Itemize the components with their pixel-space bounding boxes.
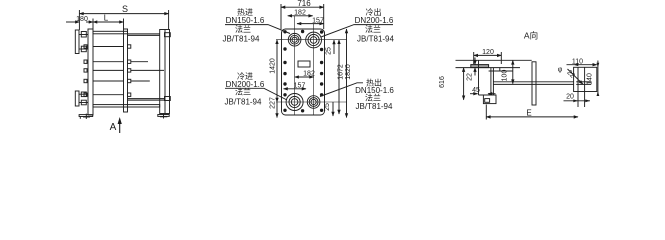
lower long tie rod xyxy=(128,97,171,101)
label hot-out bottom-right xyxy=(355,78,394,112)
svg-text:157: 157 xyxy=(294,82,306,89)
nozzle top-left DN150 xyxy=(288,33,301,46)
leader cold-in xyxy=(225,88,287,100)
support column seen from below xyxy=(532,62,536,105)
dimension 20 xyxy=(564,94,591,103)
svg-text:22: 22 xyxy=(467,73,474,81)
svg-text:法兰: 法兰 xyxy=(365,93,381,103)
dimension 157 bottom xyxy=(284,82,307,89)
label cold-out top-right xyxy=(355,7,395,44)
svg-text:110: 110 xyxy=(572,59,583,66)
dimension 25 top right xyxy=(326,40,335,55)
base top line xyxy=(456,59,532,61)
svg-text:JB/T81-94: JB/T81-94 xyxy=(356,102,393,111)
dimension L xyxy=(93,14,124,30)
upper-left flange xyxy=(75,30,88,54)
nozzle centerline left column xyxy=(294,16,296,115)
front foot plate xyxy=(483,95,496,104)
dimension 100 xyxy=(502,60,513,83)
movable plate xyxy=(124,29,128,112)
label cold-in bottom-left xyxy=(225,71,265,107)
tie rod 5 xyxy=(84,93,131,96)
dimension 157 top xyxy=(297,17,324,24)
dimension 182 top xyxy=(288,10,313,17)
svg-text:E: E xyxy=(526,108,531,117)
fixed plate edge seen from below xyxy=(479,60,497,95)
carrying bar cross-section (grey) xyxy=(471,65,489,68)
svg-text:25: 25 xyxy=(326,47,333,55)
nozzle centerline bottom xyxy=(276,101,347,103)
svg-text:100: 100 xyxy=(502,70,509,82)
dimension 120 xyxy=(474,49,502,64)
dimension 180 xyxy=(66,16,93,23)
svg-text:法兰: 法兰 xyxy=(235,24,251,34)
tie rod 3 xyxy=(84,69,164,72)
support column foot xyxy=(158,114,169,119)
dimension S xyxy=(79,4,168,30)
support column xyxy=(160,30,170,114)
view arrow A xyxy=(110,117,122,133)
dimension 182 bottom xyxy=(295,71,315,78)
frame plate outline xyxy=(282,29,325,115)
svg-text:DN200-1.6: DN200-1.6 xyxy=(355,16,394,25)
dimension E xyxy=(486,105,578,120)
svg-text:120: 120 xyxy=(482,49,494,56)
svg-text:180: 180 xyxy=(76,16,88,23)
nozzle centerline top xyxy=(276,39,347,41)
svg-text:227: 227 xyxy=(270,97,277,109)
dimension 45 xyxy=(470,87,496,94)
top carrying bar xyxy=(93,31,170,36)
nozzle bottom-left DN200 xyxy=(286,94,303,111)
fixed frame plate xyxy=(88,29,93,115)
lower-left flange xyxy=(75,91,88,106)
svg-text:25: 25 xyxy=(324,103,331,111)
svg-text:DN150-1.6: DN150-1.6 xyxy=(226,16,265,25)
bolt holes xyxy=(283,30,323,113)
fixed plate foot xyxy=(79,114,93,119)
svg-text:716: 716 xyxy=(297,0,311,8)
svg-text:20: 20 xyxy=(566,94,574,101)
svg-text:A: A xyxy=(110,122,117,133)
leader hot-in xyxy=(225,25,290,34)
nozzle bottom-right DN150 xyxy=(307,96,320,109)
dimension 25 bottom right xyxy=(324,102,333,116)
leader phi22 xyxy=(558,67,583,85)
svg-text:1820: 1820 xyxy=(345,64,352,80)
svg-text:A向: A向 xyxy=(524,31,538,41)
svg-text:L: L xyxy=(104,14,109,23)
leader hot-out xyxy=(320,83,363,97)
dimension 1672 right xyxy=(338,40,345,114)
svg-text:S: S xyxy=(122,4,128,14)
nozzle top-right DN200 xyxy=(306,32,322,48)
dimension 1420 left xyxy=(270,40,278,102)
tie rod 1 xyxy=(84,45,131,48)
dimension 227 left xyxy=(270,97,278,117)
dimension 110 xyxy=(567,59,597,67)
dimension 616 xyxy=(439,68,464,100)
svg-text:1420: 1420 xyxy=(270,58,277,74)
svg-text:22: 22 xyxy=(565,69,576,80)
svg-text:140: 140 xyxy=(587,73,594,85)
svg-text:1672: 1672 xyxy=(338,64,345,80)
beam seen from below xyxy=(493,82,573,85)
svg-text:JB/T81-94: JB/T81-94 xyxy=(357,35,394,44)
svg-text:JB/T81-94: JB/T81-94 xyxy=(225,98,262,107)
leader cold-out xyxy=(321,25,393,37)
svg-text:法兰: 法兰 xyxy=(365,24,381,34)
svg-text:157: 157 xyxy=(312,17,324,24)
dimension 716 xyxy=(281,0,324,29)
step lines with 100 xyxy=(489,68,513,71)
dimension 22 xyxy=(467,58,476,81)
svg-text:JB/T81-94: JB/T81-94 xyxy=(223,35,260,44)
nozzle centerline right column xyxy=(313,24,315,115)
svg-text:616: 616 xyxy=(439,76,446,88)
base bottom line xyxy=(456,67,521,69)
label hot-in top-left xyxy=(223,7,265,44)
svg-text:φ: φ xyxy=(558,67,563,74)
svg-text:182: 182 xyxy=(303,71,315,78)
dimension 140 xyxy=(587,61,600,97)
tie rod 4 xyxy=(84,79,150,82)
nameplate xyxy=(298,61,310,67)
svg-text:182: 182 xyxy=(294,10,306,17)
svg-text:45: 45 xyxy=(472,87,480,94)
rear foot plate xyxy=(574,67,597,107)
dimension 1820 right xyxy=(345,29,352,118)
tie rod 2 xyxy=(84,60,148,63)
bottom guide bar xyxy=(93,105,160,107)
